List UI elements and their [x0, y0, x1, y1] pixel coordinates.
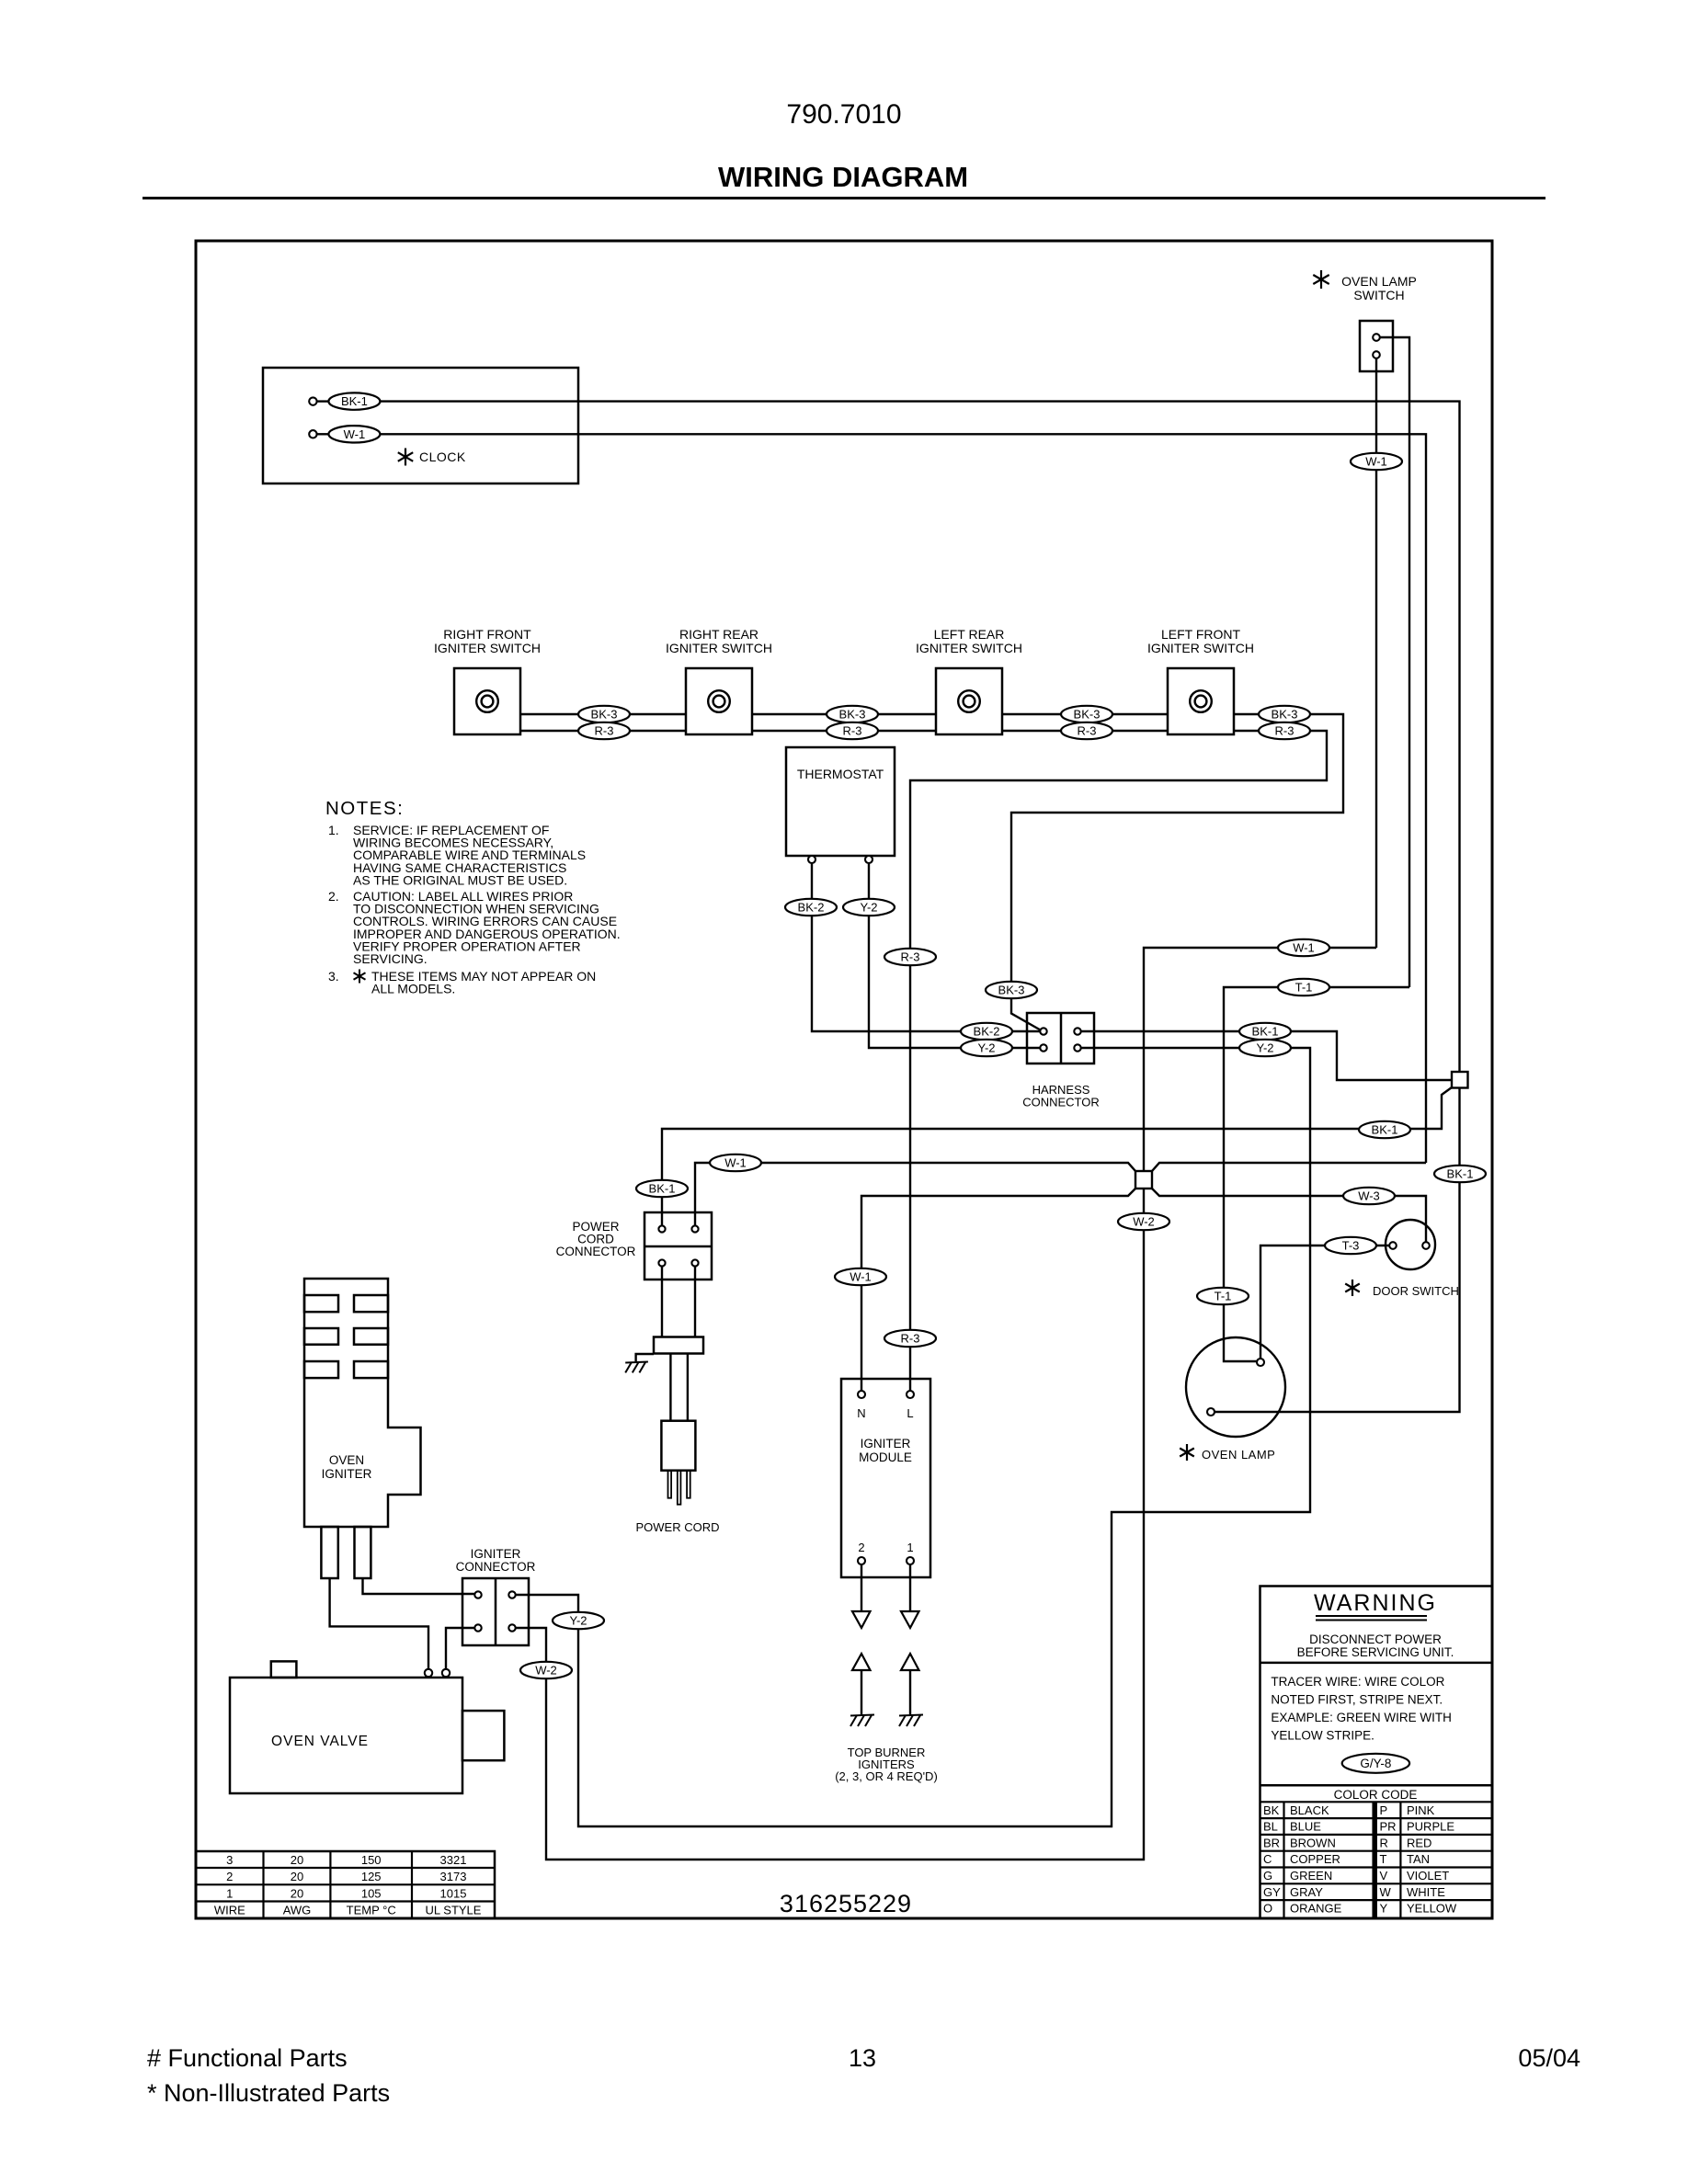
svg-text:BK-2: BK-2: [798, 901, 825, 915]
wire W-3 junction J1 to door switch: [1152, 1189, 1426, 1242]
notes item 3: [359, 970, 360, 984]
svg-text:1: 1: [907, 1541, 913, 1554]
svg-text:BEFORE SERVICING UNIT.: BEFORE SERVICING UNIT.: [1297, 1645, 1454, 1659]
wire igniter module output 1: [909, 1564, 911, 1611]
svg-text:ALL MODELS.: ALL MODELS.: [371, 982, 455, 996]
power cord plug body: [661, 1421, 695, 1471]
svg-text:3173: 3173: [440, 1870, 467, 1883]
color code table grid: [1260, 1801, 1493, 1803]
wire BK-3 left front to harness connector: [1011, 714, 1343, 1030]
power cord ground symbol: [625, 1362, 648, 1363]
power cord connector terminal LB: [658, 1259, 665, 1266]
svg-text:C: C: [1263, 1852, 1272, 1866]
svg-text:R-3: R-3: [1275, 724, 1295, 738]
svg-text:LEFT REAR: LEFT REAR: [934, 627, 1005, 642]
svg-text:R-3: R-3: [901, 950, 920, 964]
svg-text:BK-3: BK-3: [591, 708, 618, 722]
power cord connector terminal LT: [658, 1225, 665, 1232]
svg-text:1015: 1015: [440, 1886, 467, 1900]
top burner igniter 1 electrode: [899, 1715, 923, 1716]
svg-text:IGNITER: IGNITER: [861, 1437, 911, 1450]
svg-text:DOOR SWITCH: DOOR SWITCH: [1373, 1284, 1459, 1298]
wire clock terminal 1 stub: [317, 400, 329, 402]
svg-text:CONNECTOR: CONNECTOR: [1022, 1096, 1100, 1109]
wire R-3 left front to igniter module L: [910, 731, 1327, 1391]
oven igniter fin right 2: [354, 1328, 388, 1345]
svg-text:OVEN LAMP: OVEN LAMP: [1202, 1448, 1275, 1462]
svg-text:PURPLE: PURPLE: [1407, 1820, 1454, 1834]
wire BK-2 thermostat to harness: [812, 863, 1040, 1031]
svg-text:RIGHT REAR: RIGHT REAR: [679, 627, 758, 642]
svg-text:G: G: [1263, 1869, 1272, 1883]
wire label example G/Y-8: [1342, 1754, 1409, 1773]
wire clock terminal 2 stub: [317, 433, 329, 435]
wire BK-1 junction J2 to oven lamp: [1215, 1088, 1460, 1413]
door switch asterisk: [1352, 1280, 1353, 1296]
svg-text:BK-1: BK-1: [341, 394, 368, 408]
wire label BK-3 (2): [827, 706, 878, 722]
clock terminal 2: [309, 430, 316, 438]
wire label T-1 (drop): [1197, 1288, 1249, 1304]
clock terminal 1: [309, 397, 316, 404]
svg-text:BK: BK: [1263, 1803, 1280, 1817]
igniter connector terminal RT: [508, 1591, 515, 1598]
svg-text:1: 1: [226, 1886, 233, 1900]
svg-text:R-3: R-3: [901, 1332, 920, 1346]
oven valve right boss: [462, 1711, 505, 1760]
right front igniter switch box: [454, 668, 520, 734]
wire label R-3 (3): [1061, 722, 1112, 739]
junction J2: [1452, 1072, 1468, 1088]
svg-text:T-1: T-1: [1215, 1290, 1232, 1303]
wire W-1 oven lamp switch to W-1 run: [1375, 358, 1377, 948]
svg-text:IGNITER: IGNITER: [322, 1467, 372, 1481]
thermostat terminal 1: [808, 856, 815, 863]
wire label R-3 (5): [884, 949, 936, 965]
wire label R-3 (2): [827, 722, 878, 739]
svg-text:SWITCH: SWITCH: [1353, 288, 1404, 302]
svg-text:Y: Y: [1380, 1902, 1388, 1916]
svg-text:L: L: [907, 1406, 913, 1420]
svg-text:W-2: W-2: [1133, 1215, 1155, 1229]
wire label Y-2 (harness): [961, 1040, 1012, 1056]
left rear igniter switch button: [958, 690, 980, 712]
svg-text:BK-3: BK-3: [1272, 708, 1298, 722]
svg-text:CONNECTOR: CONNECTOR: [456, 1560, 536, 1574]
power cord connector box: [644, 1212, 712, 1280]
title rule: [143, 197, 1545, 199]
svg-text:BLACK: BLACK: [1290, 1803, 1329, 1817]
igniter module terminal L: [907, 1391, 914, 1398]
svg-text:MODULE: MODULE: [859, 1450, 912, 1464]
svg-text:RED: RED: [1407, 1836, 1431, 1849]
svg-text:105: 105: [361, 1886, 382, 1900]
svg-text:IGNITER SWITCH: IGNITER SWITCH: [434, 641, 541, 655]
wire label Y-2 (thermostat): [843, 899, 895, 916]
svg-text:RIGHT FRONT: RIGHT FRONT: [443, 627, 531, 642]
svg-text:W-3: W-3: [1358, 1189, 1380, 1203]
wire Y-2 harness to igniter connector: [516, 1048, 1310, 1826]
svg-text:790.7010: 790.7010: [786, 99, 901, 130]
harness connector terminal LB: [1040, 1044, 1046, 1051]
igniter module terminal 2: [858, 1557, 865, 1564]
oven lamp asterisk: [1186, 1444, 1188, 1461]
svg-text:IGNITER SWITCH: IGNITER SWITCH: [1147, 641, 1254, 655]
svg-text:R-3: R-3: [1078, 724, 1097, 738]
svg-text:N: N: [857, 1406, 865, 1420]
svg-text:W-2: W-2: [535, 1664, 557, 1678]
wire W-2 junction J1 to igniter connector: [516, 1189, 1144, 1860]
wire W-1 junction J1 to clock drop: [1152, 1163, 1426, 1171]
svg-text:BK-1: BK-1: [1447, 1167, 1474, 1181]
right rear igniter switch box: [686, 668, 752, 734]
svg-text:AWG: AWG: [283, 1903, 312, 1917]
wire label BK-2 (thermostat): [785, 899, 837, 916]
svg-text:125: 125: [361, 1870, 382, 1883]
svg-text:TRACER WIRE: WIRE COLOR: TRACER WIRE: WIRE COLOR: [1271, 1675, 1444, 1689]
svg-text:BR: BR: [1263, 1836, 1280, 1849]
wire label W-1 (power cord): [710, 1155, 761, 1171]
svg-text:# Functional Parts: # Functional Parts: [147, 2044, 348, 2072]
wire label Y-2 (harness right): [1239, 1040, 1291, 1056]
clock asterisk: [405, 449, 406, 466]
svg-text:ORANGE: ORANGE: [1290, 1902, 1342, 1916]
svg-text:BK-2: BK-2: [974, 1025, 1000, 1039]
thermostat terminal 2: [865, 856, 873, 863]
svg-text:POWER CORD: POWER CORD: [636, 1520, 720, 1534]
power cord connector terminal RT: [691, 1225, 698, 1232]
svg-text:Y-2: Y-2: [1256, 1041, 1273, 1055]
wire label BK-1 (power cord): [636, 1180, 688, 1197]
wire label BK-3 (4): [1259, 706, 1310, 722]
wire oven lamp switch top terminal to T-1 run: [1380, 337, 1409, 987]
wire label W-3: [1343, 1188, 1395, 1204]
svg-text:BLUE: BLUE: [1290, 1820, 1321, 1834]
warning divider 2: [1260, 1784, 1493, 1787]
wire label BK-3 (1): [578, 706, 630, 722]
wire oven valve to igniter connector LB: [446, 1628, 474, 1669]
svg-text:BK-3: BK-3: [839, 708, 866, 722]
svg-text:SERVICING.: SERVICING.: [353, 951, 428, 966]
harness connector terminal LT: [1040, 1028, 1046, 1034]
svg-text:AS THE ORIGINAL MUST BE USED.: AS THE ORIGINAL MUST BE USED.: [353, 872, 567, 887]
wire BK-3 left rear to left front: [1002, 713, 1168, 715]
igniter module output 1 arrow: [901, 1611, 919, 1628]
svg-text:W-1: W-1: [1293, 941, 1315, 955]
wire W-1 clock to center junction: [380, 434, 1426, 1163]
svg-text:BK-1: BK-1: [1372, 1123, 1398, 1137]
wire label BK-1 (lamp drop): [1434, 1166, 1486, 1182]
svg-text:05/04: 05/04: [1518, 2044, 1580, 2072]
door switch body: [1386, 1220, 1435, 1269]
svg-text:V: V: [1380, 1869, 1388, 1883]
svg-text:THERMOSTAT: THERMOSTAT: [797, 767, 884, 781]
oven lamp switch terminal 1: [1373, 334, 1380, 341]
svg-text:WIRE: WIRE: [214, 1903, 245, 1917]
wire label R-3 (4): [1259, 722, 1310, 739]
top burner igniter 2 electrode: [850, 1715, 874, 1716]
svg-text:YELLOW: YELLOW: [1407, 1902, 1457, 1916]
svg-text:PINK: PINK: [1407, 1803, 1435, 1817]
wire label R-3 (module): [884, 1330, 936, 1347]
svg-text:1.: 1.: [328, 823, 339, 837]
svg-text:LEFT FRONT: LEFT FRONT: [1161, 627, 1241, 642]
harness connector box: [1027, 1013, 1094, 1064]
svg-text:IGNITER SWITCH: IGNITER SWITCH: [666, 641, 772, 655]
svg-text:CLOCK: CLOCK: [419, 449, 466, 464]
oven valve terminal 1: [425, 1669, 432, 1677]
svg-text:316255229: 316255229: [780, 1890, 912, 1917]
power cord strain relief: [654, 1337, 703, 1354]
wire W-1 lamp switch run to junction J1: [1144, 948, 1376, 1171]
svg-text:20: 20: [291, 1870, 303, 1883]
oven lamp switch terminal 2: [1373, 351, 1380, 358]
svg-text:GRAY: GRAY: [1290, 1885, 1323, 1899]
oven valve terminal 2: [442, 1669, 450, 1677]
svg-text:BROWN: BROWN: [1290, 1836, 1336, 1849]
warning box frame: [1260, 1587, 1493, 1919]
wire T-3 door switch to oven lamp: [1260, 1246, 1389, 1359]
svg-text:T-3: T-3: [1342, 1239, 1360, 1253]
wire label BK-1 (clock): [328, 392, 380, 409]
diagram border: [196, 241, 1492, 1918]
wire label R-3 (1): [578, 722, 630, 739]
svg-text:COPPER: COPPER: [1290, 1852, 1340, 1866]
wire label T-1 (run): [1278, 979, 1329, 995]
wire W-1 power cord connector to junction J1: [695, 1163, 1135, 1226]
igniter module box: [841, 1379, 930, 1577]
wire label W-1 (lamp switch run): [1278, 939, 1329, 956]
svg-text:3.: 3.: [328, 969, 339, 984]
svg-text:WHITE: WHITE: [1407, 1885, 1445, 1899]
svg-text:W: W: [1380, 1885, 1392, 1899]
svg-text:YELLOW STRIPE.: YELLOW STRIPE.: [1271, 1729, 1374, 1743]
svg-text:R-3: R-3: [843, 724, 862, 738]
wire BK-1 clock to junction J2: [380, 402, 1460, 1072]
svg-text:20: 20: [291, 1853, 303, 1867]
svg-text:Y-2: Y-2: [860, 901, 877, 915]
power cord stem: [669, 1354, 671, 1421]
right front igniter switch button: [476, 690, 498, 712]
wire label W-1 (lamp switch): [1351, 453, 1402, 470]
oven lamp switch box: [1360, 321, 1393, 371]
wire igniter module output 2: [861, 1564, 862, 1611]
svg-text:20: 20: [291, 1886, 303, 1900]
svg-text:O: O: [1263, 1902, 1272, 1916]
svg-text:BK-1: BK-1: [1252, 1025, 1279, 1039]
left front igniter switch box: [1168, 668, 1234, 734]
svg-text:BK-1: BK-1: [649, 1182, 676, 1196]
wire label BK-3 (3): [1061, 706, 1112, 722]
wire label W-1 (clock): [328, 426, 380, 442]
svg-text:G/Y-8: G/Y-8: [1360, 1757, 1391, 1770]
wire label BK-3 (harness): [986, 982, 1037, 998]
wire label W-2 (drop): [1118, 1213, 1169, 1230]
oven lamp terminal 1: [1257, 1359, 1264, 1366]
wire label BK-1 (harness): [1239, 1023, 1291, 1040]
svg-text:WARNING: WARNING: [1314, 1590, 1437, 1616]
svg-text:R: R: [1380, 1836, 1388, 1849]
wire power cord right lead: [694, 1267, 696, 1337]
wire BK-1 harness to junction J2: [1081, 1031, 1452, 1080]
svg-text:OVEN: OVEN: [329, 1453, 364, 1467]
igniter module terminal 1: [907, 1557, 914, 1564]
igniter connector terminal RB: [508, 1624, 515, 1631]
svg-text:VIOLET: VIOLET: [1407, 1869, 1449, 1883]
oven igniter fin left 1: [304, 1295, 338, 1312]
svg-text:GY: GY: [1263, 1885, 1281, 1899]
wire R-3 left rear to left front: [1002, 730, 1168, 732]
svg-text:OVEN LAMP: OVEN LAMP: [1341, 274, 1417, 289]
svg-text:TAN: TAN: [1407, 1852, 1430, 1866]
svg-text:150: 150: [361, 1853, 382, 1867]
svg-text:Y-2: Y-2: [977, 1041, 995, 1055]
oven valve top boss: [271, 1661, 297, 1678]
oven igniter leg 2: [355, 1527, 371, 1578]
svg-text:IGNITER SWITCH: IGNITER SWITCH: [916, 641, 1022, 655]
svg-text:Y-2: Y-2: [569, 1614, 587, 1628]
clock box: [263, 368, 578, 483]
svg-text:13: 13: [849, 2044, 876, 2072]
svg-text:CONNECTOR: CONNECTOR: [556, 1245, 636, 1258]
wire gauge table grid: [196, 1851, 495, 1918]
svg-text:W-1: W-1: [850, 1270, 872, 1284]
svg-text:* Non-Illustrated Parts: * Non-Illustrated Parts: [147, 2079, 390, 2107]
door switch terminal L: [1389, 1242, 1397, 1249]
wire label W-1 (module): [835, 1268, 886, 1285]
wire BK-3 right front to right rear: [520, 713, 686, 715]
power cord prong 1: [668, 1471, 672, 1498]
svg-text:R-3: R-3: [595, 724, 614, 738]
warning divider 1: [1260, 1662, 1493, 1665]
right rear igniter switch button: [708, 690, 730, 712]
wire oven igniter leg 1 to oven valve: [330, 1578, 428, 1669]
thermostat box: [786, 747, 895, 856]
oven valve box: [230, 1678, 462, 1793]
svg-text:WIRING DIAGRAM: WIRING DIAGRAM: [718, 161, 968, 193]
left rear igniter switch box: [936, 668, 1002, 734]
oven lamp terminal 2: [1207, 1408, 1215, 1416]
wire label BK-2 (harness): [961, 1023, 1012, 1040]
svg-text:W-1: W-1: [344, 427, 366, 441]
door switch terminal R: [1422, 1242, 1430, 1249]
oven igniter fin left 3: [304, 1361, 338, 1378]
svg-text:UL STYLE: UL STYLE: [426, 1903, 482, 1917]
svg-text:NOTED FIRST, STRIPE NEXT.: NOTED FIRST, STRIPE NEXT.: [1271, 1693, 1443, 1707]
svg-text:P: P: [1380, 1803, 1388, 1817]
oven igniter fin right 1: [354, 1295, 388, 1312]
top burner igniter 1 arrow: [901, 1654, 919, 1670]
svg-text:IGNITER: IGNITER: [471, 1547, 521, 1561]
oven lamp body: [1186, 1337, 1285, 1437]
svg-text:BK-3: BK-3: [1074, 708, 1101, 722]
svg-text:BK-3: BK-3: [998, 984, 1025, 997]
wire label W-2 (igniter connector): [520, 1662, 572, 1678]
svg-text:3: 3: [226, 1853, 233, 1867]
svg-text:PR: PR: [1380, 1820, 1397, 1834]
svg-text:2.: 2.: [328, 889, 339, 904]
svg-text:BL: BL: [1263, 1820, 1278, 1834]
svg-text:T-1: T-1: [1295, 981, 1313, 995]
oven igniter fin right 3: [354, 1361, 388, 1378]
wire W-1 igniter module to junction J1: [861, 1189, 1135, 1391]
igniter connector terminal LT: [474, 1591, 481, 1598]
igniter module output 2 arrow: [852, 1611, 871, 1628]
svg-text:COLOR CODE: COLOR CODE: [1334, 1788, 1418, 1802]
svg-text:T: T: [1380, 1852, 1387, 1866]
junction J1: [1135, 1171, 1152, 1189]
power cord prong 3: [687, 1471, 690, 1498]
svg-text:TEMP °C: TEMP °C: [347, 1903, 396, 1917]
harness connector terminal RB: [1074, 1044, 1080, 1051]
wire R-3 right front to right rear: [520, 730, 686, 732]
harness connector terminal RT: [1074, 1028, 1080, 1034]
wire label T-3: [1325, 1237, 1376, 1254]
oven igniter fin left 2: [304, 1328, 338, 1345]
wire T-1 lamp switch to oven lamp: [1224, 987, 1409, 1361]
wire label BK-1 (run): [1359, 1121, 1410, 1138]
warning title underline: [1316, 1615, 1427, 1617]
wire R-3 right rear to left rear: [752, 730, 936, 732]
svg-text:(2, 3, OR 4 REQ'D): (2, 3, OR 4 REQ'D): [835, 1769, 938, 1783]
wire Y-2 thermostat to harness: [869, 863, 1040, 1048]
wire BK-3 right rear to left rear: [752, 713, 936, 715]
igniter connector terminal LB: [474, 1624, 481, 1631]
svg-text:W-1: W-1: [1365, 455, 1387, 469]
oven igniter body: [304, 1279, 421, 1527]
power cord connector terminal RB: [691, 1259, 698, 1266]
wire power cord left lead: [661, 1267, 663, 1337]
svg-text:GREEN: GREEN: [1290, 1869, 1332, 1883]
top burner igniter 2 arrow: [852, 1654, 871, 1670]
wire oven igniter leg 2 to igniter connector: [363, 1578, 475, 1594]
igniter module terminal N: [858, 1391, 865, 1398]
oven igniter leg 1: [321, 1527, 337, 1578]
left front igniter switch button: [1190, 690, 1212, 712]
svg-text:2: 2: [226, 1870, 233, 1883]
svg-text:DISCONNECT POWER: DISCONNECT POWER: [1309, 1632, 1442, 1646]
wire label Y-2 (igniter connector): [553, 1612, 604, 1629]
oven lamp switch asterisk: [1320, 270, 1322, 289]
power cord ground tail: [636, 1354, 654, 1361]
power cord prong 2: [678, 1471, 681, 1505]
svg-text:3321: 3321: [440, 1853, 467, 1867]
svg-text:2: 2: [858, 1541, 864, 1554]
svg-text:EXAMPLE: GREEN WIRE WITH: EXAMPLE: GREEN WIRE WITH: [1271, 1711, 1452, 1724]
svg-text:NOTES:: NOTES:: [325, 798, 404, 819]
svg-text:W-1: W-1: [724, 1156, 747, 1170]
igniter connector box: [462, 1578, 529, 1645]
wire BK-1 power cord connector to junction J2: [662, 1087, 1452, 1226]
svg-text:OVEN VALVE: OVEN VALVE: [271, 1734, 369, 1749]
